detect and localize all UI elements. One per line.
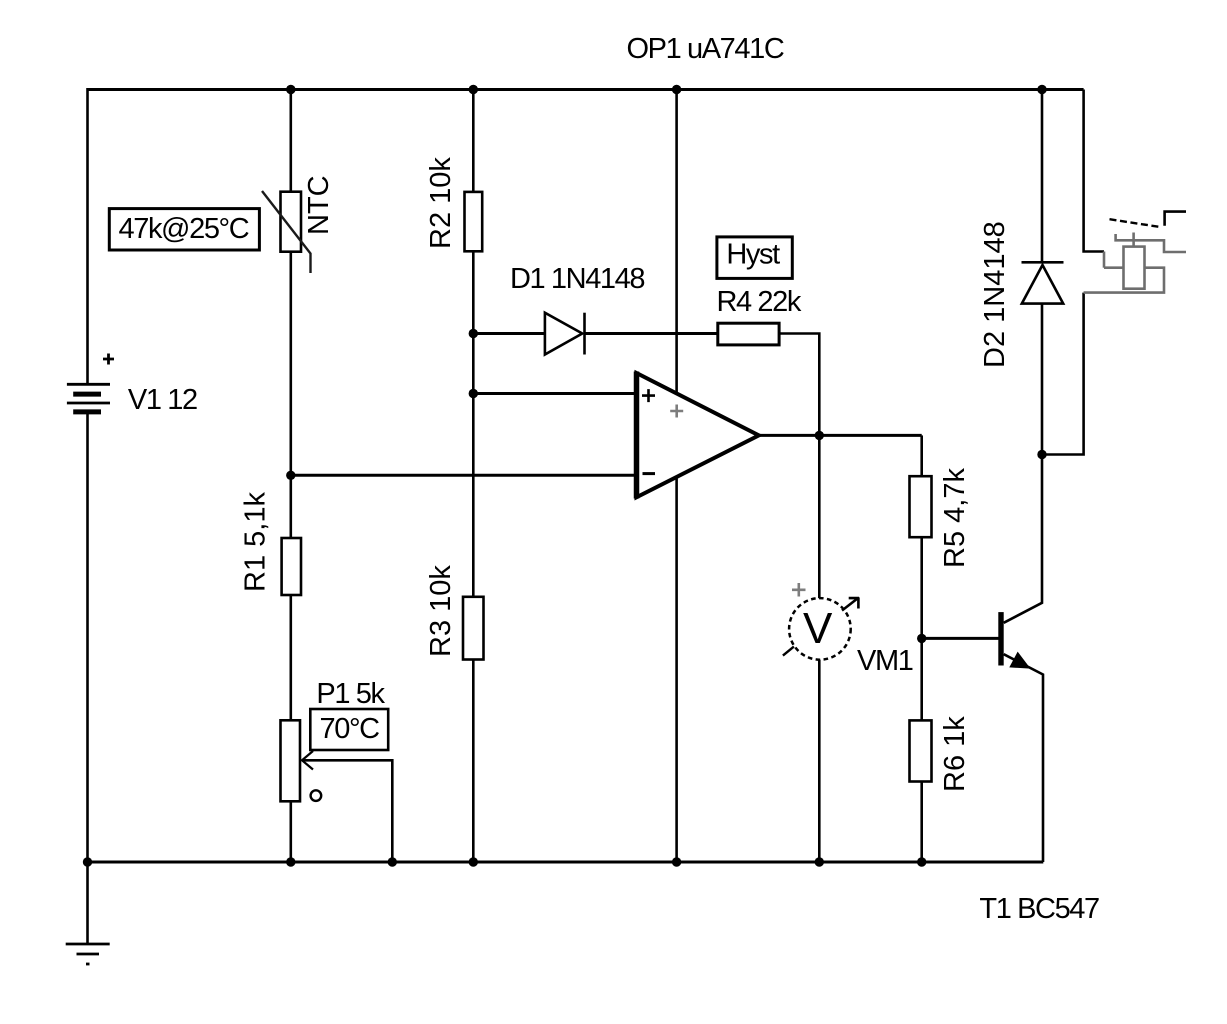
wire ground stub xyxy=(86,862,89,944)
wire R5 top xyxy=(920,435,923,476)
node bottom R3 xyxy=(469,857,478,866)
wire bottom rail xyxy=(87,861,1044,864)
svg-text:OP1 uA741C: OP1 uA741C xyxy=(627,33,784,65)
wire op-amp supply column xyxy=(675,90,678,863)
node D1 anode xyxy=(469,329,478,338)
transistor T1 xyxy=(998,612,1028,667)
wire D2 bottom xyxy=(1041,304,1044,455)
resistor R6 xyxy=(910,720,932,781)
node non-inverting xyxy=(469,389,478,398)
svg-text:R5 4,7k: R5 4,7k xyxy=(939,468,971,568)
svg-text:D2 1N4148: D2 1N4148 xyxy=(979,221,1011,368)
resistor R2 xyxy=(465,192,483,251)
wire VM1 to bottom rail xyxy=(818,660,821,863)
svg-text:R6 1k: R6 1k xyxy=(939,716,971,792)
resistor R3 xyxy=(463,597,484,660)
wire D2 top xyxy=(1041,90,1044,263)
wire non-inverting input xyxy=(473,392,636,395)
svg-text:R2 10k: R2 10k xyxy=(425,157,457,249)
wire output to VM1 xyxy=(818,435,821,598)
label 47k@25C box xyxy=(109,209,259,250)
wire R4 right xyxy=(779,334,819,436)
node top D2 xyxy=(1037,85,1046,94)
wire D1 anode xyxy=(473,332,545,335)
resistor R4 xyxy=(718,323,779,345)
label 70C box xyxy=(310,709,388,750)
relay K1 xyxy=(1084,233,1186,293)
svg-text:R4 22k: R4 22k xyxy=(717,286,802,318)
node bottom P1 xyxy=(286,857,295,866)
svg-text:70°C: 70°C xyxy=(320,713,380,745)
relay contact xyxy=(1110,212,1187,227)
svg-text:V1 12: V1 12 xyxy=(128,384,197,416)
svg-text:P1 5k: P1 5k xyxy=(316,678,385,710)
resistor R5 xyxy=(910,476,932,537)
svg-text:47k@25°C: 47k@25°C xyxy=(119,213,249,245)
battery V1 xyxy=(67,354,114,412)
svg-text:Hyst: Hyst xyxy=(726,239,780,271)
resistor R1 xyxy=(282,538,301,595)
wire relay feed top xyxy=(1084,90,1104,252)
diode D2 xyxy=(1022,262,1064,303)
node top R2 xyxy=(469,85,478,94)
voltmeter VM1 xyxy=(783,583,859,660)
node bottom supply xyxy=(672,857,681,866)
node top NTC xyxy=(286,85,295,94)
wire NTC column top xyxy=(289,90,292,193)
wire NTC to R1 xyxy=(289,251,292,539)
wire R5 to R6 xyxy=(920,537,923,721)
node top supply xyxy=(672,85,681,94)
wire inverting input xyxy=(291,474,636,477)
svg-text:R1 5,1k: R1 5,1k xyxy=(240,492,272,592)
thermistor NTC xyxy=(262,191,311,273)
label Hyst box xyxy=(717,237,792,279)
node output xyxy=(815,431,824,440)
svg-text:D1 1N4148: D1 1N4148 xyxy=(510,263,644,295)
node bottom VM1 xyxy=(815,857,824,866)
wire R6 to bottom rail xyxy=(920,781,923,862)
wire left rail lower xyxy=(86,414,89,863)
wire left rail upper xyxy=(86,88,89,384)
wire op-amp output xyxy=(758,434,922,437)
svg-text:V: V xyxy=(803,604,833,653)
wire top rail xyxy=(87,88,1084,91)
svg-text:VM1: VM1 xyxy=(857,645,913,677)
op-amp OP1 xyxy=(637,372,759,499)
wire R3 to bottom rail xyxy=(472,659,475,862)
wire R2 to node D1 xyxy=(472,251,475,597)
wire D1 cathode to R4 xyxy=(585,332,718,335)
svg-text:NTC: NTC xyxy=(303,175,335,235)
wire relay return xyxy=(1042,293,1084,455)
node D2 bottom xyxy=(1037,450,1046,459)
ground xyxy=(66,944,110,964)
node base xyxy=(917,634,926,643)
node inverting xyxy=(286,471,295,480)
diode D1 xyxy=(545,313,585,355)
node ground left xyxy=(83,857,92,866)
wire R2 column top xyxy=(472,90,475,193)
wire R1 to P1 xyxy=(289,595,292,721)
wire collector xyxy=(1004,455,1042,623)
svg-text:R3 10k: R3 10k xyxy=(425,565,457,657)
node bottom R6 xyxy=(917,857,926,866)
wire P1 to bottom rail xyxy=(289,801,292,862)
potentiometer P1 xyxy=(281,720,393,862)
wire emitter xyxy=(1004,654,1043,862)
svg-text:T1 BC547: T1 BC547 xyxy=(979,893,1099,925)
node bottom wiper xyxy=(388,857,397,866)
wire base xyxy=(922,637,999,640)
